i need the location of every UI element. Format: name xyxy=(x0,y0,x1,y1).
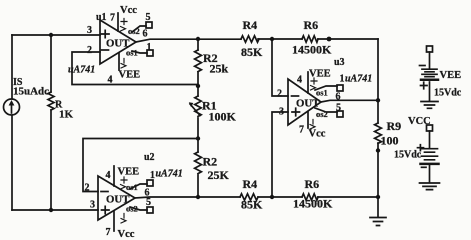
u3 V- marker xyxy=(310,120,315,130)
u1 os1 terminal xyxy=(147,50,153,56)
svg-text:os1: os1 xyxy=(126,48,138,58)
battery VEE minus xyxy=(420,65,426,67)
wire u2 pin2 feedback xyxy=(83,139,198,192)
u3 plus input symbol xyxy=(292,108,300,116)
svg-text:4: 4 xyxy=(297,75,302,86)
svg-text:os2: os2 xyxy=(126,204,138,214)
wire top-left node to u1 pin3 xyxy=(12,34,100,36)
resistor R6 top xyxy=(302,36,318,42)
battery VCC lower stub xyxy=(429,165,431,182)
u1 V+ marker xyxy=(121,19,128,32)
u1 os2 stub xyxy=(132,26,146,32)
supply VEE stub xyxy=(429,52,431,69)
u1 pin4 stub xyxy=(118,53,120,70)
ground main xyxy=(370,218,386,226)
ground VEE xyxy=(421,102,438,109)
u1 os2 terminal xyxy=(146,22,152,28)
svg-text:u2: u2 xyxy=(144,152,155,163)
resistor R2 bottom branch xyxy=(195,152,202,197)
svg-text:5: 5 xyxy=(146,197,151,208)
u2 os2 terminal xyxy=(147,207,153,213)
u2 pin4 stub xyxy=(113,166,115,186)
u2 V+ marker xyxy=(121,177,128,189)
resistor R2 top branch xyxy=(195,39,202,96)
junction node R4/R6 bottom xyxy=(270,195,274,199)
resistor R xyxy=(48,35,54,210)
svg-text:85K: 85K xyxy=(241,45,263,59)
svg-text:7: 7 xyxy=(299,125,304,136)
junction node R1/R2b xyxy=(196,136,200,140)
svg-text:Vcc: Vcc xyxy=(118,229,135,238)
wire u3 pin3 branch xyxy=(272,112,288,197)
svg-text:R2: R2 xyxy=(203,155,218,169)
junction node R9 bottom xyxy=(376,148,380,152)
svg-text:2: 2 xyxy=(85,183,90,194)
svg-text:1: 1 xyxy=(147,42,152,53)
svg-text:14500K: 14500K xyxy=(292,43,332,57)
u2 plus input symbol xyxy=(102,206,110,213)
svg-text:3: 3 xyxy=(279,107,284,118)
u1 minus input symbol xyxy=(102,49,109,51)
u3 pin4 stub xyxy=(307,72,309,93)
svg-text:VEE: VEE xyxy=(118,167,140,178)
svg-text:R6: R6 xyxy=(304,18,319,32)
svg-text:5: 5 xyxy=(146,12,151,23)
svg-text:R4: R4 xyxy=(243,18,258,32)
svg-text:4: 4 xyxy=(108,75,113,86)
svg-text:3: 3 xyxy=(87,25,92,36)
junction node left top xyxy=(49,33,53,37)
svg-text:4: 4 xyxy=(106,170,111,181)
svg-text:25K: 25K xyxy=(208,168,230,182)
junction node R4/R6 top xyxy=(270,37,274,41)
u3 os1 terminal xyxy=(337,85,343,91)
svg-text:100: 100 xyxy=(381,134,399,148)
resistor R4 top xyxy=(241,36,259,42)
svg-text:os2: os2 xyxy=(316,109,328,119)
u1 pin7 stub xyxy=(117,13,119,31)
svg-text:1: 1 xyxy=(150,170,155,181)
resistor R6 bottom xyxy=(302,194,318,200)
u2 V- marker xyxy=(121,214,126,224)
svg-text:Vcc: Vcc xyxy=(120,5,137,16)
u1 V- marker xyxy=(121,59,126,69)
svg-text:VEE: VEE xyxy=(440,70,462,81)
svg-text:VCC: VCC xyxy=(408,116,431,127)
svg-text:25k: 25k xyxy=(210,62,229,76)
svg-text:14500K: 14500K xyxy=(293,197,333,211)
u3 V+ marker xyxy=(311,78,318,90)
u3 pin7 stub xyxy=(307,112,309,128)
svg-text:os1: os1 xyxy=(316,88,328,98)
battery VEE lower stub xyxy=(429,82,431,101)
svg-text:R4: R4 xyxy=(243,177,258,191)
u3 minus input symbol xyxy=(292,95,299,97)
svg-text:VEE: VEE xyxy=(309,69,331,80)
resistor R4 bottom xyxy=(240,194,258,200)
battery VEE plus xyxy=(421,82,428,89)
svg-text:15Vdc: 15Vdc xyxy=(394,150,422,161)
svg-text:85K: 85K xyxy=(241,198,263,212)
svg-text:1: 1 xyxy=(340,74,345,85)
battery VCC plus xyxy=(418,145,424,151)
junction node R2top/rail xyxy=(196,37,200,41)
svg-text:os2: os2 xyxy=(128,26,140,36)
u2 minus input symbol xyxy=(101,191,108,193)
wire right rail lower xyxy=(377,143,379,217)
battery VEE plates xyxy=(422,69,437,77)
u2 os2 stub xyxy=(130,207,147,210)
svg-text:uA741: uA741 xyxy=(68,65,95,76)
u2 pin7 stub xyxy=(113,211,115,231)
wire u1 pin2 feedback to R2/R1 node xyxy=(72,52,198,85)
junction node R2/R1 xyxy=(196,84,200,88)
svg-text:3: 3 xyxy=(90,200,95,211)
svg-text:15uAdc: 15uAdc xyxy=(13,86,49,98)
junction node R2b/rail xyxy=(196,195,200,199)
wire bottom-left rail xyxy=(12,209,98,211)
u3 os2 stub xyxy=(315,108,337,112)
svg-text:uA741: uA741 xyxy=(156,169,183,180)
wire left rail xyxy=(11,35,13,210)
svg-text:100K: 100K xyxy=(209,110,237,124)
supply VCC stub xyxy=(429,131,431,149)
resistor R9 xyxy=(375,123,382,143)
current source IS xyxy=(4,99,20,115)
svg-text:6: 6 xyxy=(336,92,341,103)
svg-text:5: 5 xyxy=(336,103,341,114)
svg-text:u3: u3 xyxy=(334,57,345,68)
svg-text:os1: os1 xyxy=(126,182,138,192)
svg-text:Vcc: Vcc xyxy=(309,129,326,140)
u3 os1 stub xyxy=(315,86,337,90)
svg-text:R9: R9 xyxy=(387,119,402,133)
svg-text:7: 7 xyxy=(110,13,115,24)
u2 os1 stub xyxy=(130,184,147,189)
junction node u3 out xyxy=(376,98,380,102)
op-amp U2 triangle xyxy=(98,176,135,220)
resistor R1 variable xyxy=(189,96,201,152)
u1 plus input symbol xyxy=(102,30,110,37)
svg-text:R6: R6 xyxy=(305,177,320,191)
u3 output wire xyxy=(321,100,378,102)
svg-text:u1: u1 xyxy=(96,12,107,23)
supply VCC terminal square xyxy=(427,125,433,131)
u2 output wire / bottom rail xyxy=(135,197,378,198)
svg-text:6: 6 xyxy=(143,29,148,40)
junction node R6 top right xyxy=(327,37,332,42)
supply VEE terminal square xyxy=(427,46,433,52)
u1 os1 stub xyxy=(132,51,147,53)
svg-text:15Vdc: 15Vdc xyxy=(434,88,462,99)
junction node left bottom xyxy=(49,208,53,212)
wire right rail upper xyxy=(377,39,379,123)
battery VCC minus xyxy=(422,166,427,168)
wire u3 pin2 branch xyxy=(272,39,288,96)
svg-text:uA741: uA741 xyxy=(345,74,372,85)
svg-text:VEE: VEE xyxy=(119,70,141,81)
svg-text:2: 2 xyxy=(87,45,92,56)
op-amp U1 triangle xyxy=(100,20,136,64)
op-amp U3 triangle xyxy=(288,79,321,125)
ground VCC xyxy=(420,183,440,190)
svg-text:1K: 1K xyxy=(59,109,74,121)
junction node bottom right xyxy=(376,195,380,199)
u1 output wire / top rail xyxy=(136,39,378,42)
u3 os2 terminal xyxy=(337,111,343,117)
svg-text:2: 2 xyxy=(277,89,282,100)
u2 os1 terminal xyxy=(147,180,153,186)
battery VCC plates xyxy=(422,149,438,160)
svg-text:7: 7 xyxy=(106,227,111,238)
